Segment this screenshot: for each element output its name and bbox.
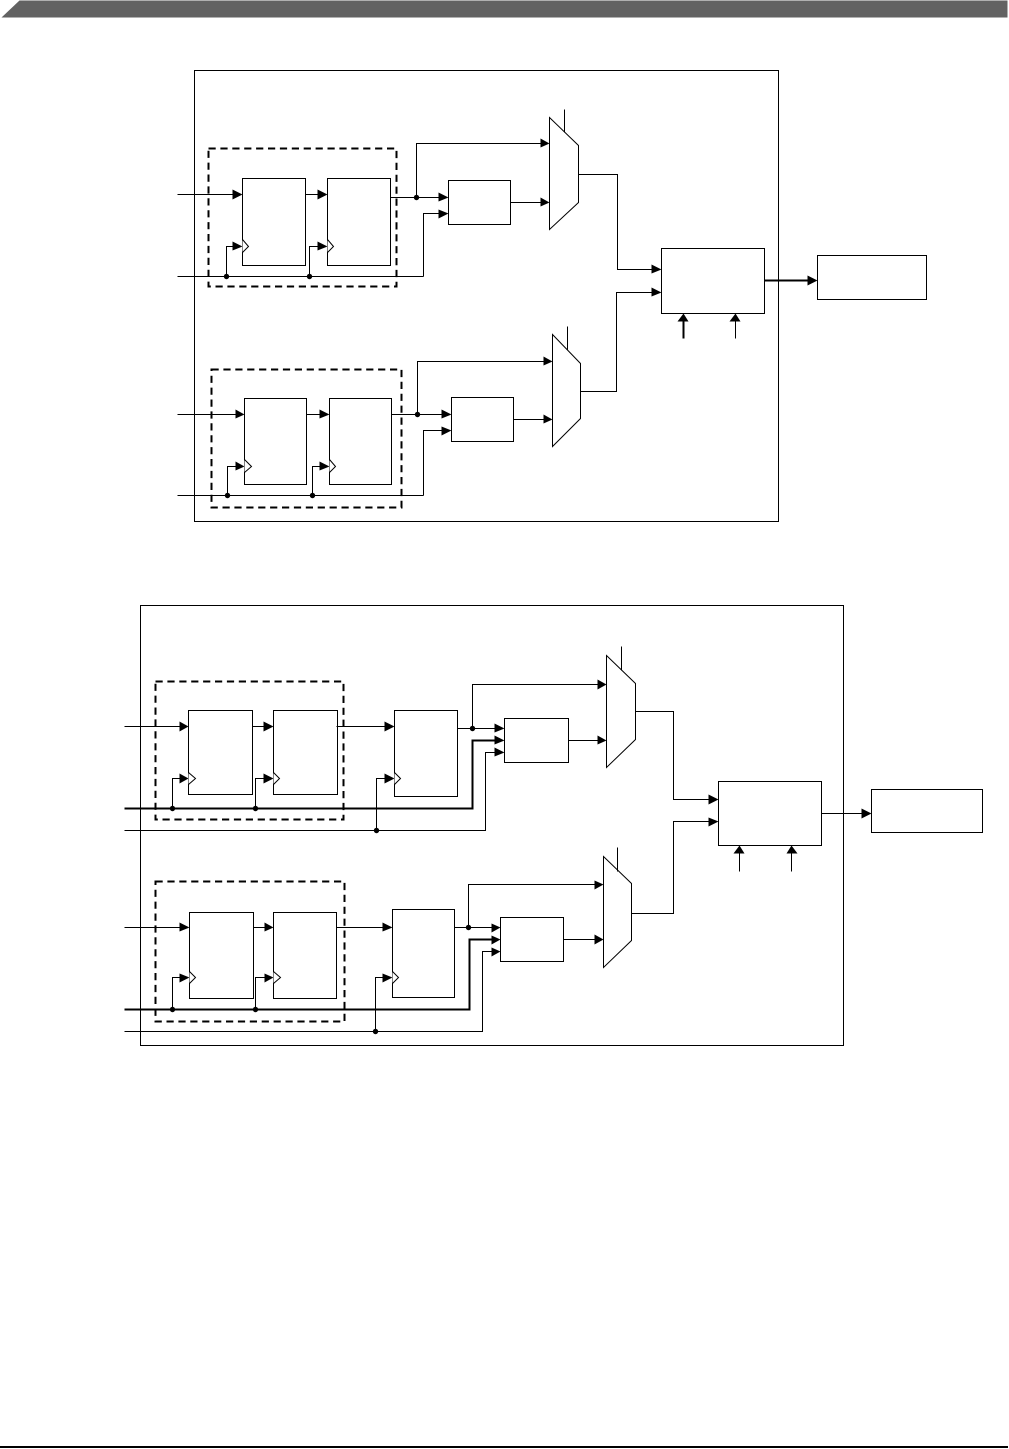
clock chevron FF4 (330, 460, 336, 473)
wire mux M3 output to CNT2 upper input (636, 712, 711, 800)
wire input3 to FF3 (178, 414, 237, 416)
wire junction to mux M3 upper input (473, 685, 599, 729)
flip-flop FF5 (189, 711, 253, 795)
arrowhead CNT2 clock up (734, 846, 745, 854)
diagram 1 noise canceller dashed box (lower channel) (212, 370, 402, 508)
arrowhead FF3 to FF4 (320, 410, 330, 419)
wire FF5 to FF6 (253, 726, 266, 728)
arrowhead mux M2 to CNT1 (652, 288, 662, 297)
arrowhead CNT1 to OUT1 (808, 276, 818, 286)
wire clock elbow to FF4 (313, 467, 322, 496)
diagram 2 noise canceller dashed box (lower channel) (156, 882, 345, 1022)
flip-flop FF3 (245, 399, 307, 485)
clock chevron FF2 (328, 240, 334, 253)
wire junction to mux M2 upper input (418, 362, 545, 415)
wire clock bus riser to ED2 lower input (424, 431, 444, 496)
arrowhead FF8 to SY2 (383, 923, 393, 932)
wire FF3 to FF4 (307, 414, 322, 416)
counter/capture register box CNT2 (719, 782, 822, 846)
wire CNT1 clock arrow tail (thick) (683, 322, 685, 339)
arrowhead ED4 to mux M4 (595, 935, 604, 945)
wire FF4 output to ED2 (392, 414, 444, 416)
arrowhead input1 (233, 190, 243, 200)
clock chevron FF8 (274, 972, 281, 984)
wire input D to FF7 (125, 927, 182, 929)
arrowhead clock FF6 (264, 774, 274, 784)
wire clock elbow to FF7 (173, 978, 182, 1010)
flip-flop FF8 (274, 913, 337, 999)
wire mux M2 output to CNT1 lower input (581, 293, 654, 392)
wire clock bus lower channel diagram 2 (thick) (125, 940, 493, 1010)
arrowhead ED2 to mux M2 (544, 415, 553, 424)
arrowhead FF6 to SY1 (385, 722, 395, 732)
arrowhead CNT1 clock up (678, 314, 689, 322)
arrowhead clock FF7 (180, 974, 190, 983)
wire FF1 to FF2 (306, 194, 320, 196)
edge detector box ED4 (501, 918, 564, 962)
wire input1 to FF1 (178, 194, 235, 196)
mux M4 select tick (617, 848, 619, 872)
arrowhead clock FF2 (318, 242, 328, 251)
junction clock bus at FF4 (310, 493, 315, 498)
wire FF6 to SY1 (337, 726, 387, 728)
arrowhead clock SY1 (385, 774, 395, 784)
arrowhead into ED1 upper (439, 193, 449, 202)
wire clock elbow to FF3 (228, 467, 237, 496)
wire input C bus to ED3 third input (125, 753, 497, 831)
wire input A to FF5 (125, 726, 181, 728)
wire FF8 to SY2 (337, 927, 385, 929)
edge detector box ED3 (505, 719, 569, 763)
arrowhead input D (180, 923, 190, 932)
wire input C elbow to SY1 clock (377, 779, 387, 831)
junction clock bus at FF3 (225, 493, 230, 498)
arrowhead into mux M2 upper (544, 357, 553, 366)
footer rule (0, 1446, 1008, 1448)
wire clock bus upper channel diagram 2 (thick) (125, 741, 497, 809)
wire clock elbow to FF1 (227, 247, 235, 277)
junction clock bus at FF1 (224, 274, 229, 279)
arrowhead clock bus into ED4 (492, 936, 501, 945)
wire CNT1 enable arrow tail (thin) (735, 322, 737, 339)
wire input F bus to ED4 third input (125, 952, 493, 1032)
arrowhead CNT1 enable up (730, 314, 741, 322)
counter/capture register box CNT1 (662, 249, 765, 314)
arrowhead into ED2 upper (442, 410, 452, 419)
flip-flop FF4 (330, 399, 392, 485)
diagram 2 noise canceller dashed box (upper channel) (156, 682, 344, 820)
wire clock elbow to FF5 (173, 779, 181, 809)
wire mux M4 output to CNT2 lower input (632, 822, 711, 914)
arrowhead FF5 to FF6 (264, 722, 274, 732)
arrowhead clock FF8 (265, 974, 274, 983)
wire clock elbow to FF2 (310, 247, 320, 277)
wire ED2 output to mux M2 lower input (514, 419, 545, 421)
wire junction to mux M1 upper input (417, 144, 542, 198)
flip-flop FF6 (274, 711, 338, 795)
junction FF4 output node (415, 412, 420, 417)
arrowhead clock FF3 (236, 462, 245, 471)
arrowhead clock FF1 (233, 242, 243, 251)
arrowhead CNT2 to OUT2 (862, 809, 872, 819)
mux M3 (607, 656, 636, 768)
arrowhead into mux M4 upper (595, 881, 604, 890)
flip-flop FF1 (243, 179, 306, 266)
arrowhead clock FF4 (320, 462, 330, 471)
diagram 1 outer box (195, 71, 779, 522)
wire ED4 output to mux M4 lower input (564, 939, 596, 941)
arrowhead SY2 to ED4 (492, 924, 501, 933)
arrowhead input3 (236, 410, 245, 419)
synchronizer box SY2 (393, 910, 455, 998)
junction SY2 output node (466, 925, 471, 930)
junction SY1 output node (470, 726, 475, 731)
arrowhead into mux M1 upper (541, 139, 550, 148)
arrowhead into ED1 lower (439, 210, 449, 219)
mux M2 (553, 335, 581, 447)
arrowhead input F into ED4 (492, 948, 501, 957)
junction input F at SY2 riser (373, 1029, 378, 1034)
arrowhead CNT2 enable up (787, 846, 798, 854)
diagram 2 outer box (141, 606, 844, 1046)
arrowhead FF7 to FF8 (265, 923, 274, 932)
wire FF2 output to ED1 (391, 197, 441, 199)
synchronizer box SY1 (395, 711, 458, 797)
wire junction to mux M4 upper input (469, 885, 596, 928)
arrowhead mux M4 to CNT2 (709, 818, 719, 827)
wire CNT2 enable arrow tail (791, 854, 793, 872)
wire ED1 output to mux M1 lower input (511, 202, 542, 204)
arrowhead into ED2 lower (442, 427, 452, 436)
junction clock bus at FF6 (253, 806, 258, 811)
arrowhead mux M3 to CNT2 (709, 795, 719, 805)
wire clock elbow to FF8 (256, 978, 266, 1010)
flip-flop FF2 (328, 179, 391, 266)
header bar (2, 1, 1008, 18)
clock chevron FF5 (189, 773, 196, 785)
wire CNT1 output to OUT1 (thick) (765, 280, 810, 282)
junction FF2 output node (414, 195, 419, 200)
arrowhead SY1 to ED3 (495, 724, 505, 733)
wire clock bus upper channel (178, 276, 424, 278)
arrowhead clock FF5 (180, 774, 189, 784)
wire input F elbow to SY2 clock (376, 978, 385, 1032)
junction clock bus at FF8 (253, 1007, 258, 1012)
arrowhead FF1 to FF2 (318, 190, 328, 200)
output register box OUT1 (818, 256, 927, 300)
wire SY1 output to ED3 (458, 728, 497, 730)
arrowhead mux M1 to CNT1 (652, 265, 662, 274)
edge detector box ED2 (452, 398, 514, 442)
mux M1 select tick (564, 110, 566, 133)
clock chevron FF6 (274, 773, 280, 785)
clock chevron SY2 (393, 972, 399, 984)
junction clock bus at FF5 (170, 806, 175, 811)
junction clock bus at FF7 (170, 1007, 175, 1012)
arrowhead input C into ED3 (495, 748, 505, 757)
wire clock bus riser to ED1 lower input (424, 214, 441, 277)
output register box OUT2 (872, 790, 983, 833)
clock chevron FF1 (243, 240, 249, 253)
arrowhead ED3 to mux M3 (598, 736, 607, 745)
wire mux M1 output to CNT1 upper input (579, 175, 654, 270)
arrowhead clock SY2 (383, 974, 393, 983)
diagram 1 noise canceller dashed box (upper channel) (209, 149, 397, 287)
wire clock bus lower channel (178, 495, 424, 497)
wire CNT2 output to OUT2 (822, 813, 864, 815)
mux M4 (604, 857, 632, 968)
clock chevron SY1 (395, 773, 401, 785)
clock chevron FF7 (190, 972, 196, 984)
wire CNT2 clock arrow tail (739, 854, 741, 872)
mux M2 select tick (567, 327, 569, 350)
arrowhead input A (180, 722, 189, 732)
flip-flop FF7 (190, 913, 254, 999)
arrowhead clock bus into ED3 (495, 736, 505, 745)
arrowhead ED1 to mux M1 (541, 198, 550, 207)
wire ED3 output to mux M3 lower input (569, 740, 599, 742)
wire clock elbow to FF6 (256, 779, 266, 809)
mux M3 select tick (621, 647, 623, 671)
wire FF7 to FF8 (254, 927, 266, 929)
junction clock bus at FF2 (307, 274, 312, 279)
wire SY2 output to ED4 (455, 927, 493, 929)
mux M1 (550, 118, 579, 230)
junction input C at SY1 riser (374, 828, 379, 833)
edge detector box ED1 (449, 181, 511, 225)
arrowhead into mux M3 upper (598, 680, 607, 690)
clock chevron FF3 (245, 460, 252, 473)
